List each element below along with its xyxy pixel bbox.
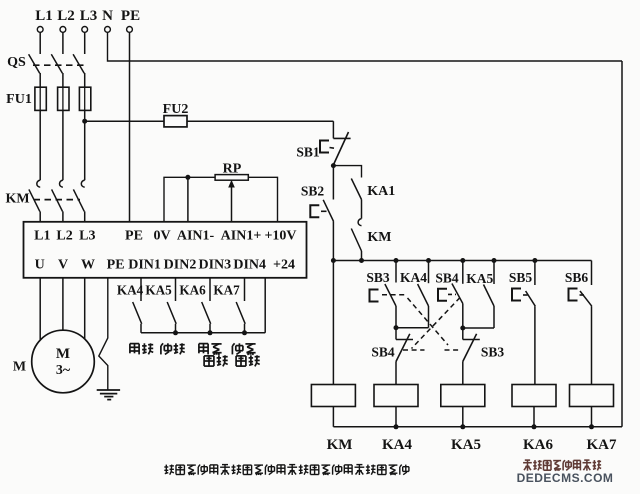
label reverse-jog line1	[232, 343, 255, 354]
wire FU1 to KM phase L3	[84, 110, 86, 180]
wire SB1 to KA1 branch	[333, 166, 361, 178]
wire QS to FU1 phase L2	[62, 73, 64, 87]
wire tap to AIN1-	[187, 177, 189, 222]
contactor KM linkage	[34, 199, 81, 201]
pushbutton SB5 NO	[509, 261, 535, 385]
pushbutton SB4 NO	[435, 261, 462, 329]
label KM coil	[327, 437, 353, 453]
svg-text:N: N	[102, 8, 113, 24]
svg-text:FU1: FU1	[6, 92, 32, 107]
svg-text:+24: +24	[273, 258, 295, 273]
junction bottom rail x534	[532, 424, 537, 429]
svg-text:KA6: KA6	[523, 437, 554, 453]
ground symbol	[97, 390, 120, 400]
potentiometer RP body	[215, 175, 248, 181]
svg-text:L1: L1	[35, 8, 53, 24]
fuse FU1 label	[6, 92, 32, 107]
junction control rail x361	[359, 258, 364, 263]
contactor KM main contact L3	[73, 180, 84, 211]
svg-text:3~: 3~	[56, 363, 71, 378]
wire inverter V to motor	[62, 278, 64, 330]
svg-text:PE: PE	[121, 8, 140, 24]
wire DIN2 down	[175, 278, 177, 301]
wire KM coil to bottom rail	[332, 407, 334, 427]
coil KM	[311, 385, 355, 407]
svg-text:SB5: SB5	[509, 270, 533, 285]
label reverse-jog line2	[236, 355, 260, 366]
svg-text:KA4: KA4	[382, 437, 413, 453]
wire DIN4 down	[244, 278, 246, 301]
junction DIN3 rail	[208, 330, 213, 335]
node N supply terminal	[102, 8, 113, 32]
wire KA6 coil to bottom rail	[533, 407, 535, 427]
node L2 supply terminal	[57, 8, 75, 32]
wire DIN1 down	[140, 278, 142, 301]
switch QS pole L1	[29, 54, 40, 73]
wire RP right to +10V	[248, 177, 277, 222]
contactor KM label	[5, 192, 29, 207]
pushbutton SB2 NO	[301, 166, 334, 261]
wire KM to inverter L3	[84, 211, 86, 221]
wire PE terminal to inverter PE	[129, 32, 131, 221]
relay contact KA4 (DIN1)	[117, 283, 144, 333]
svg-text:L3: L3	[79, 229, 95, 244]
svg-text:KA7: KA7	[213, 283, 240, 298]
wire FU1 to KM phase L1	[39, 110, 41, 180]
svg-text:AIN1+: AIN1+	[221, 229, 262, 244]
svg-text:V: V	[58, 258, 68, 273]
svg-text:SB4: SB4	[435, 271, 459, 286]
relay contact KA1	[351, 179, 395, 200]
wire L1 to QS	[39, 32, 41, 54]
switch QS pole L3	[73, 54, 84, 73]
svg-text:U: U	[35, 258, 45, 273]
svg-text:SB2: SB2	[301, 184, 325, 199]
coil KA4	[374, 385, 418, 407]
wire L2 to QS	[62, 32, 64, 54]
contactor KM auxiliary contact	[351, 219, 391, 261]
wire FU2 to SB1	[187, 120, 333, 122]
relay contact KA6 (DIN3)	[179, 283, 210, 333]
junction control rail x428	[426, 258, 431, 263]
svg-text:L1: L1	[34, 229, 50, 244]
pushbutton SB6 NO	[565, 261, 592, 385]
junction control rail x333	[331, 258, 336, 263]
wire RP left to 0V	[164, 177, 215, 222]
label KA5 coil	[451, 437, 481, 453]
fuse FU1 phase L1	[35, 87, 46, 110]
svg-text:KA1: KA1	[367, 184, 395, 199]
label KA4 coil	[382, 437, 413, 453]
svg-text:KM: KM	[327, 437, 353, 453]
junction DIN2 rail	[173, 330, 178, 335]
svg-text:SB6: SB6	[565, 270, 589, 285]
junction bottom rail x591	[589, 424, 594, 429]
svg-text:DIN2: DIN2	[164, 258, 197, 273]
svg-text:M: M	[13, 360, 26, 375]
wire right bus drop	[621, 61, 623, 427]
label KA6 coil	[523, 437, 554, 453]
wire +24 down	[264, 278, 266, 333]
node PE supply terminal	[121, 8, 140, 32]
wire KM to inverter L1	[39, 211, 41, 221]
svg-text:SB3: SB3	[481, 345, 505, 360]
wire DIN common rail	[141, 332, 265, 334]
junction control rail x494	[492, 258, 497, 263]
svg-text:PE: PE	[125, 229, 143, 244]
svg-text:PE: PE	[107, 258, 125, 273]
svg-text:SB3: SB3	[366, 270, 390, 285]
label forward-run (zhengzhuan)	[130, 343, 153, 354]
wire L3 to QS	[84, 32, 86, 54]
wire DIN3 down	[209, 278, 211, 301]
wire L3 to FU2	[85, 120, 164, 122]
svg-text:KM: KM	[5, 192, 29, 207]
fuse FU2	[164, 116, 187, 127]
junction control rail x396	[394, 258, 399, 263]
contactor KM main contact L2	[52, 180, 63, 211]
pushbutton SB1 NC	[296, 132, 350, 164]
svg-text:KA5: KA5	[466, 271, 493, 286]
svg-text:SB4: SB4	[371, 345, 395, 360]
wire bottom coil rail	[333, 426, 622, 428]
watermark dedecms chinese	[523, 460, 601, 471]
frequency inverter U1 box with terminal labels	[24, 222, 307, 278]
relay contact KA5 branch	[466, 261, 494, 329]
svg-text:L2: L2	[57, 8, 75, 24]
switch QS linkage	[33, 64, 85, 66]
linkage SB4 to NC interlock	[403, 298, 460, 351]
junction SB4-KA5 bar	[460, 326, 465, 331]
motor designation M	[13, 360, 26, 375]
wire inverter U to motor	[39, 278, 41, 340]
svg-text:KM: KM	[367, 230, 391, 245]
junction FU2 tap on L3	[82, 119, 87, 124]
coil KA5	[441, 385, 485, 407]
label reverse-run (fanzhuan)	[161, 343, 185, 354]
svg-text:L3: L3	[80, 8, 98, 24]
fuse FU1 phase L2	[58, 87, 69, 110]
svg-text:KA5: KA5	[451, 437, 481, 453]
wire inverter PE to ground	[99, 278, 108, 390]
junction bottom rail x462	[460, 424, 465, 429]
svg-text:KA4: KA4	[400, 270, 427, 285]
svg-text:AIN1-: AIN1-	[177, 229, 215, 244]
svg-text:DIN4: DIN4	[233, 258, 266, 273]
svg-text:W: W	[81, 258, 95, 273]
wire SB4-KA5 parallel bar	[463, 327, 494, 329]
junction after SB1	[331, 163, 336, 168]
wire KA5 coil to bottom rail	[462, 407, 464, 427]
wire control rail	[333, 260, 591, 262]
junction DIN4 rail	[242, 330, 247, 335]
svg-text:QS: QS	[7, 55, 26, 70]
wire KA1 to KM aux	[361, 200, 363, 219]
linkage SB3 to NC interlock	[382, 295, 462, 350]
label forward-jog line2	[204, 355, 228, 366]
svg-text:DIN1: DIN1	[128, 258, 161, 273]
svg-text:+10V: +10V	[264, 229, 296, 244]
fuse FU2 label	[163, 102, 189, 117]
svg-text:KA6: KA6	[179, 283, 206, 298]
potentiometer RP label	[223, 162, 242, 177]
wire KM to inverter L2	[62, 211, 64, 221]
coil KA7	[570, 385, 614, 407]
svg-text:KA5: KA5	[145, 283, 172, 298]
svg-text:M: M	[56, 346, 70, 362]
relay contact KA5 (DIN2)	[145, 283, 176, 333]
wire rail to KM coil	[332, 261, 334, 385]
fuse FU1 phase L3	[79, 87, 90, 110]
wire SB3-KA4 parallel bar	[396, 327, 429, 329]
wire KA4 coil to bottom rail	[395, 407, 397, 427]
junction SB3-KA4 bar	[394, 325, 399, 330]
caption chinese title	[164, 465, 409, 475]
label forward-jog line1	[199, 344, 222, 355]
pushbutton SB4 NC interlock	[371, 328, 413, 385]
svg-text:DEDECMS.COM: DEDECMS.COM	[517, 471, 614, 485]
relay contact KA4 branch	[400, 261, 429, 328]
wire FU2 to SB1 corner	[332, 121, 334, 138]
svg-text:KA7: KA7	[587, 437, 618, 453]
pushbutton SB3 NO	[366, 261, 396, 328]
wire N terminal to right bus	[108, 32, 623, 61]
coil KA6	[512, 385, 556, 407]
disconnect switch QS label	[7, 55, 26, 70]
pushbutton SB3 NC interlock	[463, 328, 505, 385]
svg-text:KA4: KA4	[117, 283, 144, 298]
wire QS to FU1 phase L3	[84, 73, 86, 87]
wire FU1 to KM phase L2	[62, 110, 64, 180]
junction bottom rail x396	[394, 424, 399, 429]
node L1 supply terminal	[35, 8, 53, 32]
wire KA7 coil to bottom rail	[591, 407, 593, 427]
wire RP wiper to AIN1+	[228, 180, 235, 222]
label KA7 coil	[587, 437, 618, 453]
watermark dedecms url	[517, 471, 614, 485]
svg-text:0V: 0V	[153, 229, 170, 244]
relay contact KA7 (DIN4)	[213, 283, 245, 333]
junction control rail x462	[460, 258, 465, 263]
wire QS to FU1 phase L1	[39, 73, 41, 87]
junction RP tap AIN1-	[185, 175, 190, 180]
node L3 supply terminal	[80, 8, 98, 32]
svg-text:L2: L2	[56, 229, 72, 244]
wire inverter W to motor	[84, 278, 86, 339]
switch QS pole L2	[51, 54, 62, 73]
junction control rail x534	[532, 258, 537, 263]
contactor KM main contact L1	[29, 180, 40, 211]
motor M 3-phase	[32, 330, 95, 393]
svg-text:SB1: SB1	[296, 145, 320, 160]
svg-text:DIN3: DIN3	[198, 258, 231, 273]
